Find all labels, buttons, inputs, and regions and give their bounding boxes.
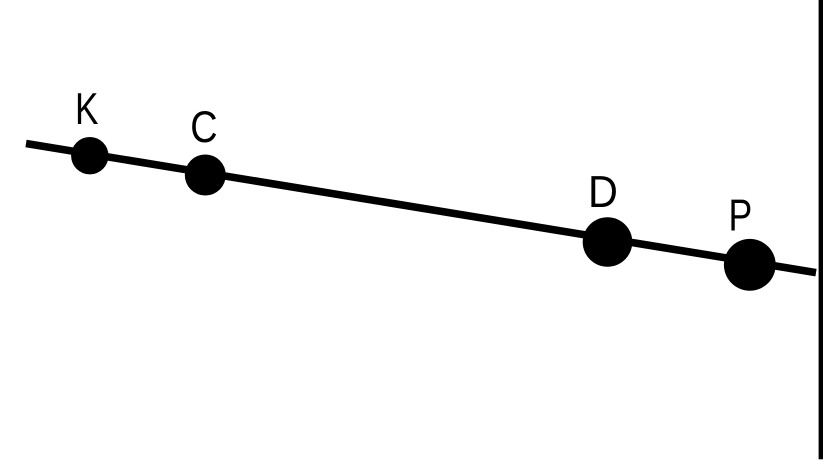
svg-text:K: K bbox=[75, 85, 99, 134]
label D bbox=[588, 168, 618, 218]
label C bbox=[190, 102, 217, 152]
point D bbox=[583, 217, 633, 267]
label P bbox=[729, 191, 753, 241]
right edge black bar bbox=[819, 0, 823, 459]
svg-text:D: D bbox=[588, 168, 618, 218]
point K bbox=[71, 137, 108, 174]
svg-text:P: P bbox=[729, 191, 753, 241]
point C bbox=[185, 155, 226, 196]
point P bbox=[724, 239, 776, 291]
svg-text:C: C bbox=[190, 102, 217, 152]
line through K C D P bbox=[26, 144, 816, 273]
label K bbox=[75, 85, 99, 134]
